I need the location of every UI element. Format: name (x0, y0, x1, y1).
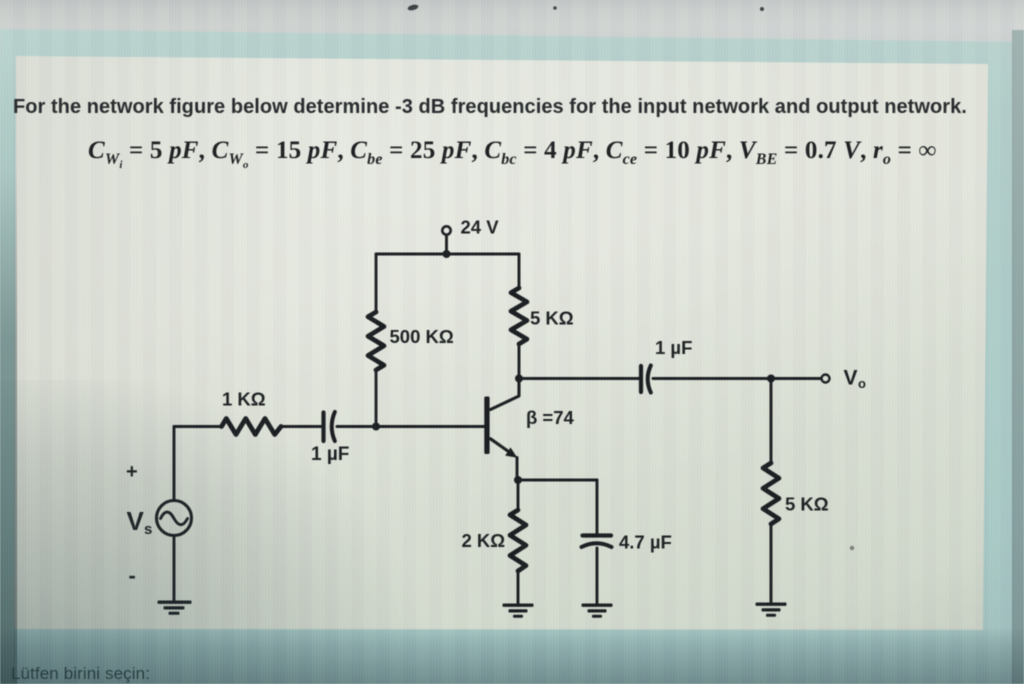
svg-text:4.7 µF: 4.7 µF (619, 532, 672, 553)
top cut glyph mark 3 (760, 7, 764, 11)
wire emitter node to 4.7uF branch (518, 479, 597, 482)
capacitor 1uF input (321, 413, 325, 442)
dust speck (850, 546, 854, 550)
node dot base (372, 423, 380, 431)
resistor 1 K (222, 419, 282, 435)
node dot emitter (514, 476, 522, 484)
svg-text:V: V (844, 367, 858, 390)
capacitor 4.7uF (583, 533, 612, 537)
bottom prompt text (11, 664, 150, 684)
svg-text:o: o (858, 376, 866, 391)
bottom shading (0, 628, 1024, 684)
ground under 2K (503, 604, 534, 618)
transistor Q1 emitter lead (491, 439, 509, 452)
wire cap to Vo (653, 377, 821, 380)
ground under 4.7uF (582, 604, 613, 618)
resistor 2 K (510, 510, 526, 571)
ground under VS (158, 601, 192, 615)
top cut glyph mark 2 (553, 6, 557, 10)
node dot collector (515, 375, 523, 383)
wire input cap to base (337, 425, 485, 428)
transistor Q1 emitter arrow (505, 447, 517, 457)
wire source vertical upper (173, 427, 176, 501)
svg-text:5 KΩ: 5 KΩ (530, 308, 574, 329)
capacitor 1uF output (639, 366, 643, 392)
wire left branch upper (375, 254, 378, 312)
svg-text:500 KΩ: 500 KΩ (390, 326, 454, 347)
wire collector branch upper (518, 254, 521, 288)
node dot output (767, 375, 775, 383)
node dot under 24V (443, 250, 451, 258)
wire 2K to ground (517, 571, 520, 605)
wire 1K to input cap (281, 425, 322, 428)
wire load branch lower (770, 524, 773, 604)
wire input from source to 1K (174, 425, 222, 428)
wire 4.7uF branch lower (596, 548, 599, 605)
transistor Q1 collector lead (491, 379, 520, 410)
heading question text (13, 96, 967, 119)
Vo terminal circle (822, 375, 830, 383)
wire 24V stub (445, 235, 448, 254)
resistor 5 K collector (511, 288, 527, 344)
svg-text:1 µF: 1 µF (655, 337, 692, 358)
wire source vertical lower (173, 536, 176, 602)
svg-text:24 V: 24 V (461, 217, 500, 238)
voltage source VS (157, 501, 192, 536)
wire left branch lower (375, 370, 378, 427)
wire output to cap (519, 377, 639, 380)
ground under 5K load (756, 603, 787, 617)
wire load branch upper (770, 379, 773, 464)
wire collector branch lower (518, 344, 521, 379)
svg-text:5 KΩ: 5 KΩ (785, 494, 829, 515)
24V supply terminal circle (442, 226, 450, 234)
resistor 5 K load (763, 463, 779, 524)
transistor Q1 base bar (484, 397, 489, 455)
math given values line (88, 138, 937, 165)
wire 4.7uF branch upper (596, 480, 599, 534)
wire emitter to 2K (517, 480, 520, 510)
top cut glyph mark 1 (407, 4, 419, 12)
right dark column (1012, 30, 1024, 684)
wire top rail (376, 253, 519, 256)
resistor 500 K (368, 312, 384, 370)
